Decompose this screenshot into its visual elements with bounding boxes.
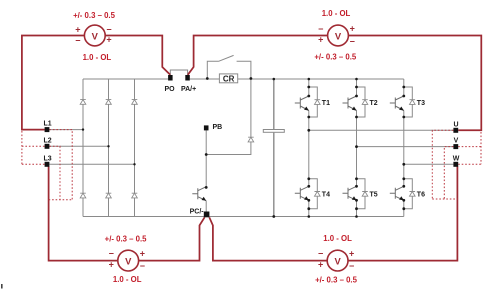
svg-text:L2: L2 [44, 138, 52, 145]
svg-text:T6: T6 [417, 192, 425, 199]
svg-text:V: V [92, 30, 99, 41]
svg-text:V: V [454, 138, 459, 145]
svg-text:−: − [140, 261, 145, 271]
svg-text:+: + [318, 260, 323, 270]
svg-text:1.0 - OL: 1.0 - OL [83, 53, 112, 62]
svg-text:PC/-: PC/- [190, 209, 205, 216]
svg-text:1.0 - OL: 1.0 - OL [322, 9, 351, 18]
svg-text:−: − [350, 36, 355, 46]
svg-text:V: V [125, 255, 132, 266]
svg-text:+: + [140, 248, 145, 258]
svg-text:T4: T4 [322, 192, 330, 199]
svg-text:+: + [75, 24, 80, 34]
svg-text:−: − [109, 249, 114, 259]
svg-text:T3: T3 [417, 100, 425, 107]
svg-text:−: − [75, 35, 80, 45]
svg-text:T2: T2 [370, 100, 378, 107]
svg-text:L1: L1 [44, 121, 52, 128]
svg-text:−: − [106, 25, 111, 35]
svg-text:−: − [318, 249, 323, 259]
svg-text:U: U [453, 121, 458, 128]
svg-text:T1: T1 [322, 100, 330, 107]
svg-text:PO: PO [164, 86, 175, 93]
svg-text:+/- 0.3 – 0.5: +/- 0.3 – 0.5 [105, 234, 147, 243]
svg-text:+: + [349, 248, 354, 258]
svg-text:1.0 - OL: 1.0 - OL [323, 234, 352, 243]
svg-text:L3: L3 [44, 156, 52, 163]
svg-text:+: + [318, 34, 323, 44]
svg-text:T5: T5 [370, 192, 378, 199]
svg-text:CR: CR [223, 75, 235, 84]
svg-text:+: + [350, 23, 355, 33]
svg-text:V: V [335, 30, 342, 41]
svg-text:+: + [106, 34, 111, 44]
svg-text:1.0 - OL: 1.0 - OL [113, 275, 142, 284]
svg-text:+/- 0.3 – 0.5: +/- 0.3 – 0.5 [314, 52, 356, 61]
svg-text:−: − [349, 261, 354, 271]
svg-text:+/- 0.3 – 0.5: +/- 0.3 – 0.5 [315, 276, 357, 285]
svg-text:+/- 0.3 – 0.5: +/- 0.3 – 0.5 [73, 11, 115, 20]
svg-text:W: W [453, 155, 460, 162]
svg-text:PA/+: PA/+ [181, 86, 196, 93]
svg-text:−: − [318, 24, 323, 34]
svg-text:+: + [109, 260, 114, 270]
svg-text:PB: PB [213, 124, 223, 131]
svg-text:V: V [334, 255, 341, 266]
